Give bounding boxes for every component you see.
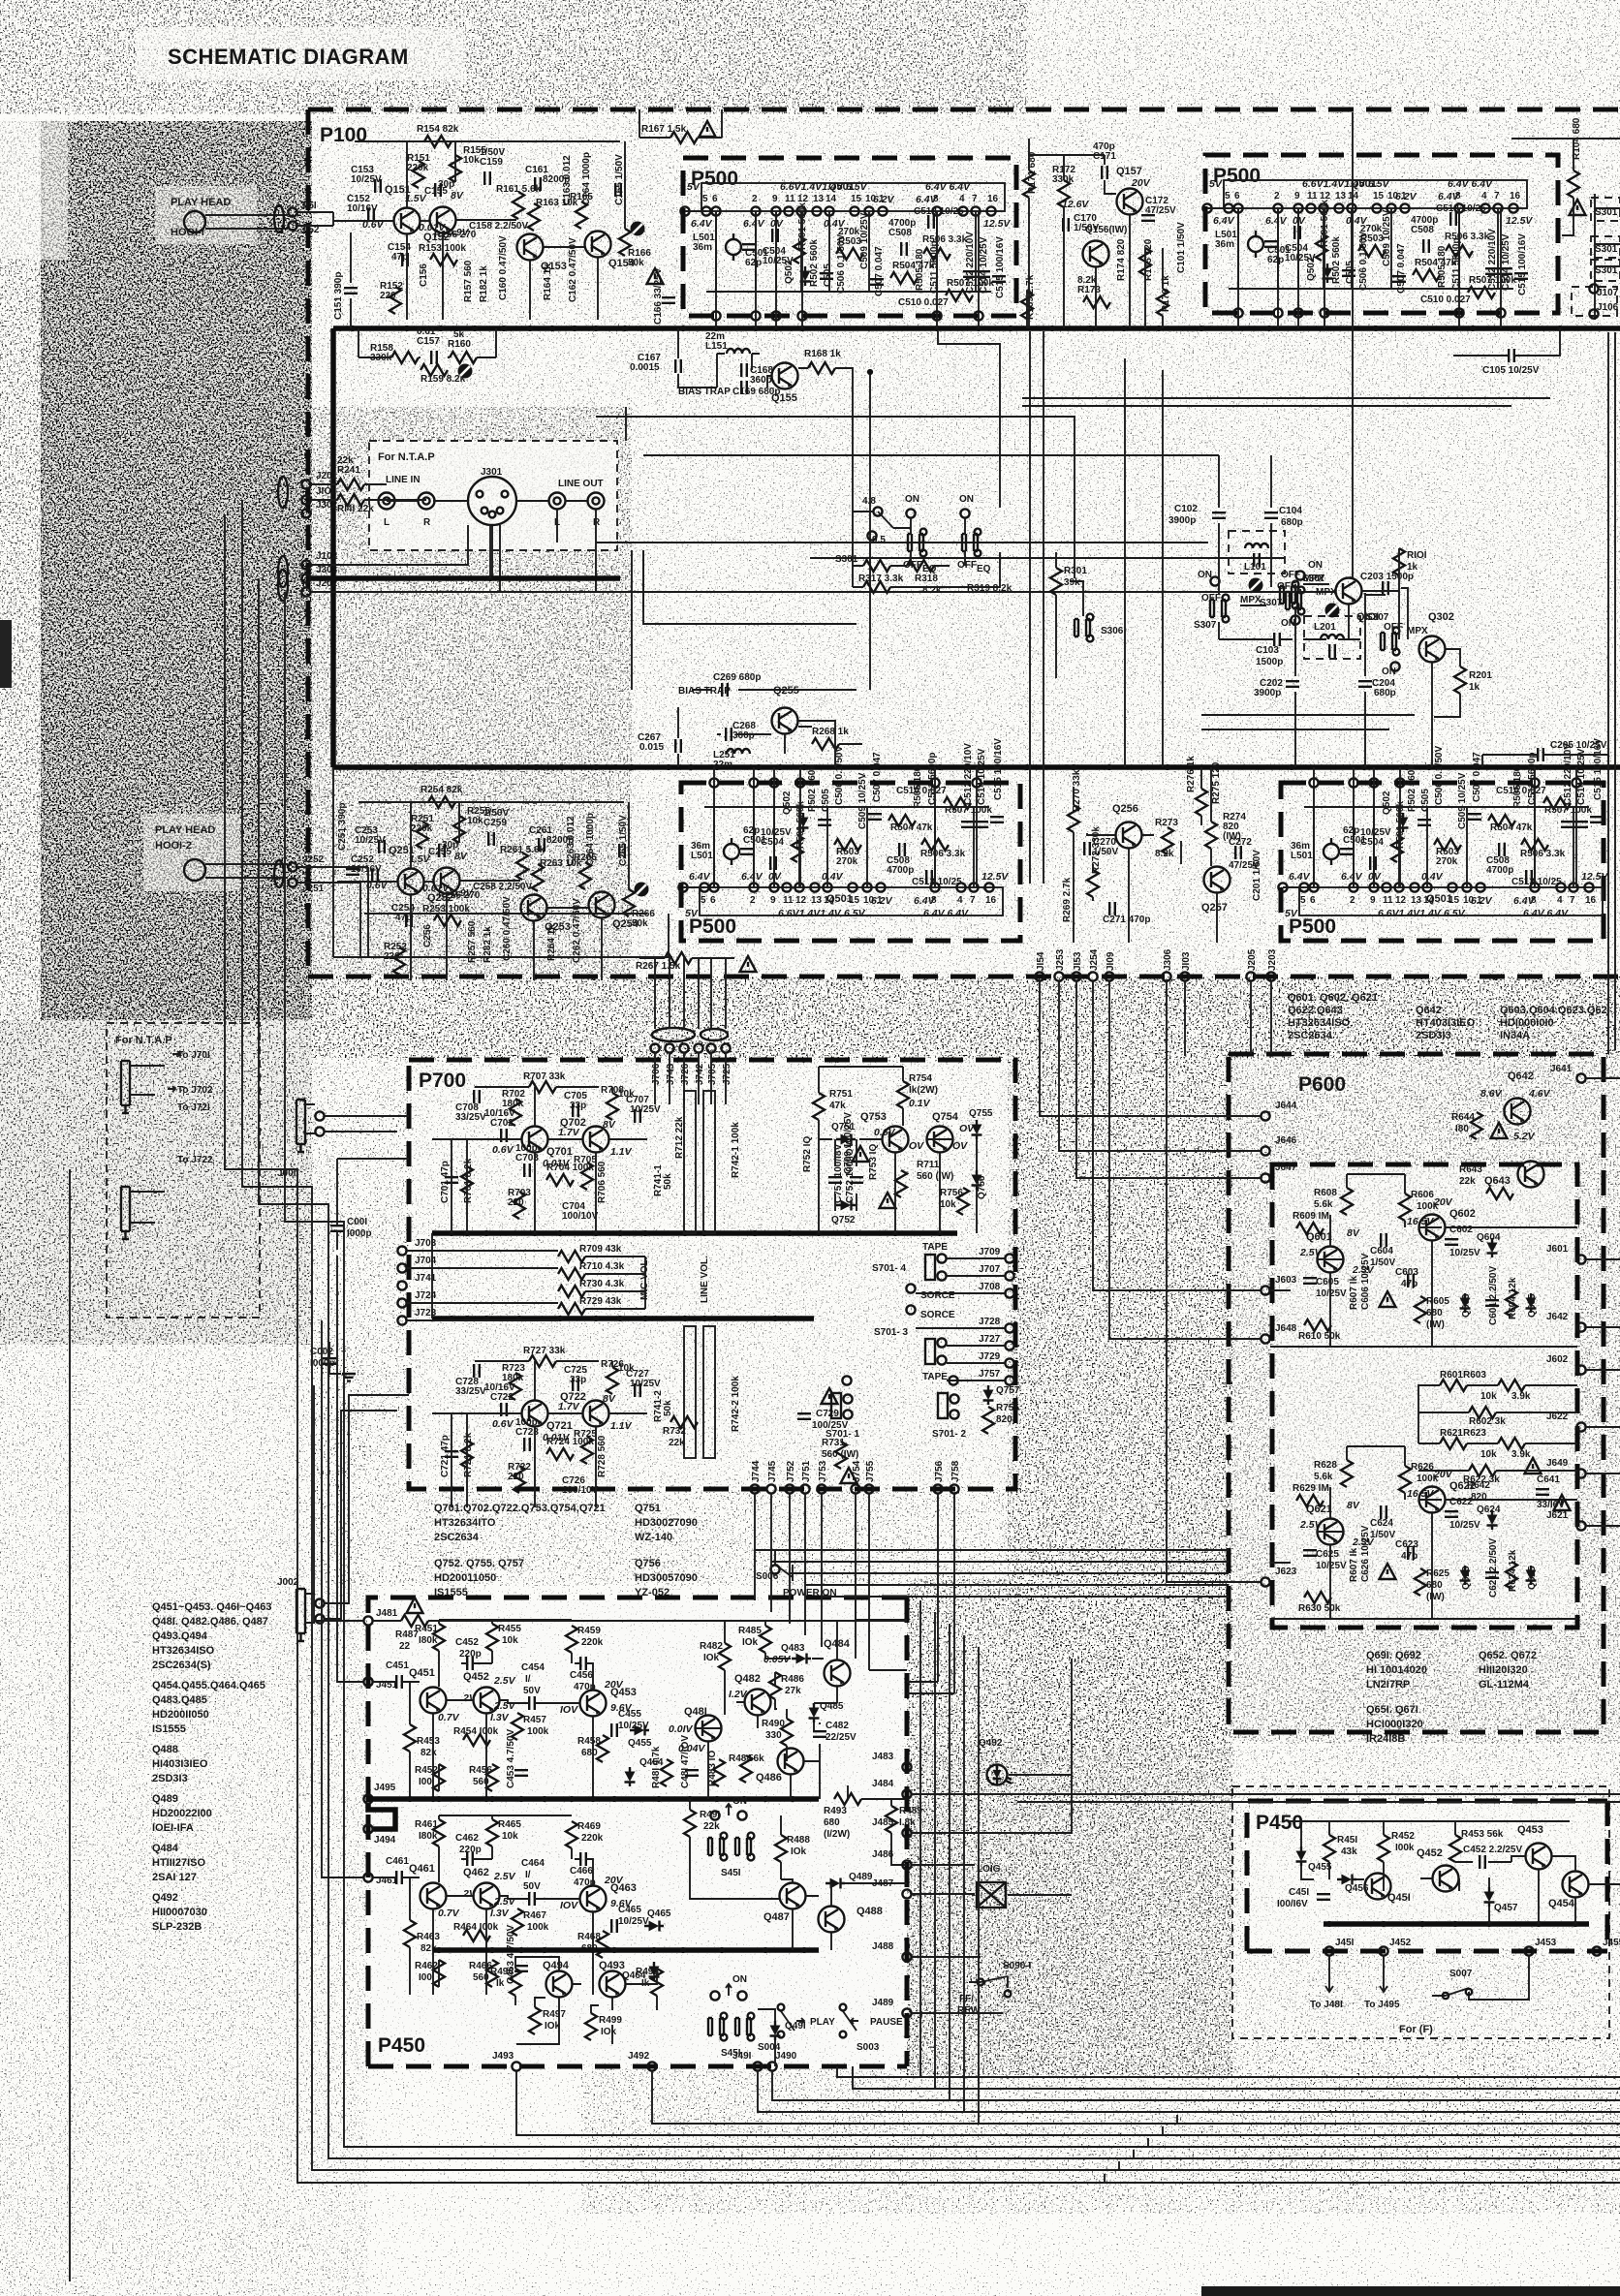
svg-text:5: 5 bbox=[1300, 895, 1306, 906]
transistor Q155 bbox=[772, 363, 798, 389]
svg-text:J708: J708 bbox=[979, 1282, 1001, 1292]
row wires bbox=[432, 1361, 647, 1507]
svg-text:10/16V: 10/16V bbox=[347, 203, 378, 214]
pin ON a bbox=[1210, 576, 1219, 585]
svg-text:8.2k: 8.2k bbox=[1155, 849, 1174, 859]
diode Q465 bbox=[644, 1921, 664, 1932]
svg-text:S306: S306 bbox=[1101, 626, 1124, 636]
svg-text:6.4V 6.4V: 6.4V 6.4V bbox=[1523, 908, 1569, 919]
wire bbox=[407, 1251, 645, 1320]
svg-text:I000p: I000p bbox=[347, 1228, 372, 1239]
svg-text:C505: C505 bbox=[1345, 261, 1355, 284]
resistor R506 3.3k P500-3 bbox=[921, 839, 949, 851]
svg-text:47p: 47p bbox=[1401, 1279, 1417, 1289]
transistor Q753 bbox=[883, 1127, 909, 1153]
resistor R167 1.5k bbox=[670, 132, 698, 143]
capacitor C270 1/50V bbox=[1084, 842, 1090, 855]
svg-text:10k: 10k bbox=[502, 1831, 518, 1842]
svg-text:LINE VOL.: LINE VOL. bbox=[700, 1256, 710, 1303]
switch S701-3 bbox=[874, 1327, 948, 1382]
svg-text:R164 1k: R164 1k bbox=[543, 264, 553, 300]
resistor R273 8.2k bbox=[1162, 827, 1173, 854]
svg-text:220k: 220k bbox=[407, 163, 429, 173]
svg-text:C482: C482 bbox=[826, 1721, 849, 1731]
capacitors C751 C752 bbox=[828, 1177, 842, 1183]
svg-text:HT32634ISO: HT32634ISO bbox=[152, 1645, 215, 1657]
svg-text:6.2V: 6.2V bbox=[873, 194, 895, 205]
svg-text:6.6V1.4V1.4V: 6.6V1.4V1.4V bbox=[778, 908, 842, 919]
transistor Q621 bbox=[1318, 1519, 1344, 1545]
svg-text:P100: P100 bbox=[320, 124, 367, 146]
svg-text:Q602: Q602 bbox=[1449, 1208, 1476, 1220]
transistor Q452 bbox=[474, 1688, 500, 1714]
svg-text:C157: C157 bbox=[417, 336, 440, 347]
wire right edge verticals bbox=[1608, 332, 1615, 1054]
resistor R507 100k P500-2 bbox=[1468, 287, 1495, 298]
svg-text:1k: 1k bbox=[1469, 682, 1480, 693]
resistor R485 10k bbox=[760, 1626, 771, 1653]
svg-text:1/50V: 1/50V bbox=[480, 147, 505, 158]
svg-text:J709: J709 bbox=[979, 1247, 1001, 1257]
svg-text:C511 5600p: C511 5600p bbox=[1451, 238, 1462, 292]
svg-text:13: 13 bbox=[1335, 191, 1347, 202]
resistor R625 680 bbox=[1415, 1568, 1426, 1596]
capacitor C455 10/25V bbox=[611, 1723, 617, 1737]
S301 select boxes bbox=[1591, 194, 1620, 320]
P450F outer dashed box bbox=[1232, 1786, 1609, 2038]
svg-text:5.6k: 5.6k bbox=[1314, 1472, 1333, 1482]
capacitor C167 0.0015 bbox=[675, 359, 681, 373]
resistor R451 180k bbox=[433, 1624, 445, 1651]
svg-text:R265: R265 bbox=[574, 853, 597, 863]
capacitor C452 2.2/25V bbox=[1480, 1855, 1485, 1869]
capacitor C621 2.2/50V bbox=[1485, 1572, 1499, 1578]
svg-text:6.5V: 6.5V bbox=[1368, 178, 1390, 190]
svg-text:R268 1k: R268 1k bbox=[812, 727, 849, 737]
svg-text:IOk: IOk bbox=[742, 1637, 759, 1648]
svg-text:10/25V: 10/25V bbox=[351, 174, 382, 185]
svg-text:C624: C624 bbox=[1370, 1518, 1393, 1529]
svg-text:R506 3.3k: R506 3.3k bbox=[1520, 849, 1566, 859]
svg-text:MPX: MPX bbox=[1407, 626, 1428, 636]
svg-text:IR24I8B: IR24I8B bbox=[1366, 1733, 1405, 1745]
svg-text:Q643: Q643 bbox=[1484, 1175, 1511, 1187]
cluster wires bbox=[337, 802, 629, 980]
capacitor C254 47p bbox=[406, 914, 412, 927]
svg-text:9: 9 bbox=[770, 895, 776, 906]
svg-text:22k: 22k bbox=[669, 1438, 685, 1448]
wire bbox=[358, 328, 496, 357]
svg-text:RIOI: RIOI bbox=[1407, 550, 1427, 561]
svg-text:Q483.Q485: Q483.Q485 bbox=[152, 1694, 207, 1706]
svg-text:30p: 30p bbox=[442, 840, 458, 851]
svg-text:R490: R490 bbox=[762, 1719, 785, 1729]
transistor group list text bbox=[1288, 992, 1607, 1041]
wires inside P500 P500-2 bbox=[1207, 208, 1513, 289]
capacitor C451F 100/16V bbox=[1317, 1894, 1330, 1900]
svg-text:5.6k: 5.6k bbox=[1314, 1199, 1333, 1210]
svg-text:50V: 50V bbox=[523, 1686, 541, 1696]
resistor R160 5k with trimmer bbox=[450, 352, 477, 363]
svg-text:(IW): (IW) bbox=[1426, 1592, 1445, 1602]
diode Q454 bbox=[625, 1767, 636, 1786]
svg-text:Q455: Q455 bbox=[628, 1738, 652, 1749]
resistor R701 8.2k bbox=[461, 1166, 473, 1194]
capacitor C601 2.2/50V bbox=[1485, 1300, 1499, 1306]
svg-text:J107: J107 bbox=[1597, 288, 1619, 298]
capacitor C165 1/50V bbox=[615, 183, 621, 197]
svg-text:C510 0.027: C510 0.027 bbox=[898, 297, 949, 308]
svg-text:J752: J752 bbox=[786, 1460, 796, 1482]
svg-text:C260 0.47/50V: C260 0.47/50V bbox=[502, 896, 513, 961]
switch S701-4 bbox=[872, 1242, 948, 1281]
svg-text:10/16V: 10/16V bbox=[484, 1108, 515, 1119]
resistor R605 680 bbox=[1415, 1296, 1426, 1323]
svg-text:Q502: Q502 bbox=[1382, 791, 1392, 815]
P600 right pins bbox=[1546, 1064, 1620, 1531]
svg-text:J641: J641 bbox=[1550, 1064, 1573, 1074]
wire feeder to J451 bbox=[337, 1256, 363, 1682]
svg-text:C512 220/10V: C512 220/10V bbox=[1487, 229, 1498, 291]
capacitor C161 8200p bbox=[535, 177, 541, 191]
capacitor C204 680p bbox=[1358, 681, 1372, 687]
svg-text:6.4V: 6.4V bbox=[1213, 215, 1235, 227]
svg-text:Q483: Q483 bbox=[781, 1643, 805, 1654]
capacitor C501 62p P500-4 bbox=[1340, 849, 1354, 854]
wire bbox=[690, 1785, 907, 1950]
svg-text:I00/I6V: I00/I6V bbox=[1277, 1899, 1308, 1909]
svg-text:R607 Ik: R607 Ik bbox=[1349, 1276, 1359, 1310]
capacitor C166 33/25V bbox=[662, 297, 675, 303]
resistor R503 270k P500-3 bbox=[834, 839, 861, 851]
transistor Q153 bbox=[517, 234, 544, 261]
svg-text:6.4V: 6.4V bbox=[741, 871, 763, 883]
svg-text:4700p: 4700p bbox=[887, 865, 914, 876]
svg-text:Q65I. Q67I: Q65I. Q67I bbox=[1366, 1704, 1418, 1716]
svg-text:Q157: Q157 bbox=[1116, 166, 1142, 177]
resistor R468 680 bbox=[597, 1931, 608, 1958]
border pins P500-3 bbox=[709, 778, 981, 887]
svg-text:Q487: Q487 bbox=[763, 1911, 790, 1923]
svg-text:For N.T.A.P: For N.T.A.P bbox=[115, 1035, 172, 1046]
resistor R705 470 bbox=[581, 1163, 593, 1190]
transistor Q722 bbox=[583, 1401, 609, 1427]
mixer resistors R730 R729 bbox=[558, 1286, 585, 1297]
svg-text:6.2V: 6.2V bbox=[1395, 191, 1417, 202]
svg-text:TAPE: TAPE bbox=[922, 1242, 948, 1253]
inductor L501 P500-4 bbox=[1324, 838, 1339, 865]
svg-text:R643: R643 bbox=[1459, 1164, 1482, 1175]
svg-text:C201 1/50V: C201 1/50V bbox=[1252, 850, 1262, 901]
resistor R270 33k bbox=[1068, 805, 1079, 832]
svg-text:R753 IQ: R753 IQ bbox=[868, 1144, 879, 1180]
svg-text:C454: C454 bbox=[521, 1662, 545, 1673]
wire mid connects bbox=[912, 1744, 1620, 2013]
svg-text:Q623: Q623 bbox=[1461, 1566, 1472, 1590]
svg-text:R505 180: R505 180 bbox=[1437, 245, 1448, 288]
P500 module box P500-3 bbox=[681, 783, 1020, 941]
svg-text:C452 2.2/25V: C452 2.2/25V bbox=[1463, 1845, 1522, 1855]
svg-text:L101: L101 bbox=[1244, 562, 1266, 573]
svg-text:C505: C505 bbox=[1420, 789, 1431, 812]
svg-text:L151: L151 bbox=[705, 341, 728, 352]
svg-text:47/25V: 47/25V bbox=[1145, 205, 1176, 216]
capacitor C252 10/16V bbox=[372, 869, 378, 883]
svg-text:R457: R457 bbox=[523, 1715, 546, 1725]
svg-text:62p: 62p bbox=[745, 258, 762, 268]
resistor R452 100k bbox=[1378, 1835, 1389, 1862]
svg-text:C515 100/16V: C515 100/16V bbox=[995, 236, 1006, 298]
svg-text:7: 7 bbox=[970, 895, 976, 906]
svg-text:C453 4.7/50V: C453 4.7/50V bbox=[506, 1729, 516, 1788]
transistor Q487 bbox=[780, 1883, 806, 1909]
svg-text:62p: 62p bbox=[1267, 255, 1284, 265]
svg-text:For N.T.A.P: For N.T.A.P bbox=[378, 451, 435, 463]
resistor R176 1k bbox=[1157, 289, 1168, 316]
IC Q501 pins P500-1 bbox=[680, 194, 998, 216]
svg-text:47k: 47k bbox=[829, 1101, 846, 1111]
capacitor C253 10/25V bbox=[379, 840, 385, 853]
svg-text:10/25V: 10/25V bbox=[355, 835, 386, 846]
svg-text:12: 12 bbox=[1395, 895, 1407, 906]
capacitor C104 680p bbox=[1264, 512, 1278, 518]
resistor R104 680 bbox=[1568, 171, 1579, 198]
resistor R265 5.6k bbox=[579, 862, 591, 889]
resistor R276 1k bbox=[1196, 789, 1207, 816]
svg-text:PLAY HEAD: PLAY HEAD bbox=[155, 824, 215, 836]
svg-text:2V: 2V bbox=[462, 1888, 477, 1900]
resistor R498 1k bbox=[651, 1969, 663, 1996]
svg-text:4.8: 4.8 bbox=[862, 496, 876, 507]
svg-text:R463: R463 bbox=[417, 1932, 440, 1942]
svg-text:R: R bbox=[593, 517, 601, 528]
P600 left pins bbox=[1261, 1101, 1296, 1587]
svg-text:47p: 47p bbox=[391, 252, 408, 263]
svg-text:P600: P600 bbox=[1298, 1073, 1346, 1096]
svg-text:Q754: Q754 bbox=[932, 1111, 959, 1123]
wire trunk left 4 bbox=[285, 592, 1620, 2147]
svg-text:2.5V: 2.5V bbox=[1299, 1247, 1323, 1258]
svg-text:R628: R628 bbox=[1314, 1460, 1337, 1471]
wire feeder to J481 bbox=[314, 1385, 363, 1621]
svg-text:4700p: 4700p bbox=[888, 218, 916, 229]
wire bbox=[696, 1621, 837, 1799]
wire trunk left 3 bbox=[259, 578, 1620, 2158]
wire bbox=[1027, 139, 1163, 328]
svg-text:9.6V: 9.6V bbox=[610, 1898, 633, 1909]
svg-text:I.8k: I.8k bbox=[899, 1817, 916, 1828]
capacitor C157 0.01 bbox=[431, 351, 437, 364]
capacitor C725 33p bbox=[573, 1378, 578, 1391]
svg-text:R742-2 100k: R742-2 100k bbox=[731, 1376, 741, 1432]
svg-text:C159: C159 bbox=[480, 157, 503, 168]
svg-text:C45I: C45I bbox=[1289, 1887, 1309, 1898]
svg-text:Q642: Q642 bbox=[1508, 1070, 1534, 1082]
transistor Q488 bbox=[819, 1907, 845, 1933]
svg-text:4: 4 bbox=[1557, 895, 1563, 906]
svg-text:HOOI-I: HOOI-I bbox=[171, 227, 204, 238]
svg-text:S701- 2: S701- 2 bbox=[932, 1429, 966, 1440]
resistor R493 680 bbox=[834, 1793, 861, 1805]
svg-text:C721 47p: C721 47p bbox=[440, 1435, 451, 1477]
svg-text:16.5V: 16.5V bbox=[1407, 1488, 1434, 1500]
jack J002 bbox=[296, 1589, 305, 1641]
resistor R628 5.6k bbox=[1341, 1460, 1353, 1487]
transistor Q702 bbox=[583, 1127, 609, 1153]
capacitor C723 100p bbox=[524, 1438, 530, 1451]
svg-text:C103: C103 bbox=[1256, 645, 1279, 656]
svg-text:HDI000I0I0: HDI000I0I0 bbox=[1500, 1017, 1554, 1029]
svg-text:R254 82k: R254 82k bbox=[421, 785, 463, 795]
border pins P500-4 bbox=[1309, 778, 1580, 887]
switch S307 b bbox=[1286, 587, 1304, 615]
svg-text:C604: C604 bbox=[1370, 1246, 1393, 1257]
transistor Q256 bbox=[1116, 822, 1142, 849]
svg-text:8V: 8V bbox=[454, 851, 468, 862]
diode Q623 bbox=[1460, 1566, 1471, 1585]
capacitor C202 3900p bbox=[1286, 681, 1299, 687]
svg-text:OV: OV bbox=[959, 1123, 975, 1134]
svg-text:R261 5.6k: R261 5.6k bbox=[500, 845, 545, 855]
capacitor C105 10/25V bbox=[1509, 349, 1514, 362]
svg-text:J453: J453 bbox=[1535, 1938, 1557, 1948]
resistor R501 560k P500-4 bbox=[1391, 835, 1403, 862]
svg-text:R455: R455 bbox=[498, 1624, 521, 1634]
svg-text:To J70I: To J70I bbox=[177, 1050, 210, 1061]
svg-text:C456: C456 bbox=[570, 1670, 593, 1681]
svg-text:P450: P450 bbox=[378, 2034, 425, 2057]
capacitor C513 P500-4 bbox=[1526, 870, 1532, 884]
svg-text:Ik(2W): Ik(2W) bbox=[909, 1085, 938, 1096]
svg-text:50k: 50k bbox=[663, 1173, 673, 1190]
svg-text:R469: R469 bbox=[577, 1821, 601, 1832]
capacitor C504 P500-3 bbox=[770, 856, 776, 870]
diode Q502 P500-1 bbox=[800, 266, 811, 286]
cluster wires bbox=[333, 141, 625, 320]
pin J461 bbox=[363, 1873, 372, 1881]
resistor R604 12k bbox=[1506, 1289, 1517, 1317]
resistor R644 180 bbox=[1471, 1112, 1482, 1139]
resistor R610 50k bbox=[1304, 1319, 1331, 1331]
resistor R165 5.6k bbox=[576, 202, 587, 229]
svg-text:Q48I: Q48I bbox=[684, 1706, 707, 1718]
svg-text:Q451~Q453. Q46I~Q463: Q451~Q453. Q46I~Q463 bbox=[152, 1601, 272, 1613]
svg-text:Q45I: Q45I bbox=[1387, 1892, 1411, 1904]
svg-text:C151 390p: C151 390p bbox=[333, 272, 344, 320]
svg-text:J729: J729 bbox=[979, 1351, 1001, 1362]
transistor Q721 bbox=[522, 1401, 548, 1427]
capacitor C261 8200p bbox=[539, 838, 545, 852]
diode Q751 bbox=[836, 1134, 856, 1145]
wires inside P500 P500-1 bbox=[685, 211, 991, 292]
svg-text:43k: 43k bbox=[1341, 1846, 1357, 1857]
svg-text:ON: ON bbox=[1198, 570, 1212, 580]
svg-text:LINE IN: LINE IN bbox=[386, 475, 421, 485]
svg-text:C511 5600p: C511 5600p bbox=[929, 241, 940, 295]
resistor R483 10 bbox=[713, 1759, 725, 1786]
P450F inner boundary bbox=[1247, 1801, 1607, 1951]
svg-text:9.6V: 9.6V bbox=[610, 1702, 633, 1714]
resistor R461 180k bbox=[433, 1819, 445, 1846]
svg-text:C272: C272 bbox=[1229, 837, 1252, 848]
capacitor C623 47p bbox=[1408, 1546, 1414, 1560]
svg-text:MPX: MPX bbox=[1240, 595, 1262, 605]
resistor R141 22k bbox=[337, 494, 364, 506]
svg-text:S301: S301 bbox=[835, 554, 858, 565]
svg-text:R624 12k: R624 12k bbox=[1508, 1549, 1518, 1592]
wire from J493 bbox=[516, 2071, 1620, 2135]
svg-text:C160 0.47/50V: C160 0.47/50V bbox=[498, 235, 509, 300]
transistor Q484 bbox=[825, 1660, 851, 1687]
capacitor C504 P500-4 bbox=[1370, 856, 1376, 870]
svg-text:C623: C623 bbox=[1395, 1539, 1418, 1550]
svg-text:Q624: Q624 bbox=[1477, 1505, 1501, 1515]
svg-text:P700: P700 bbox=[419, 1070, 466, 1092]
svg-text:C514 10/25V: C514 10/25V bbox=[977, 748, 987, 805]
svg-text:220p: 220p bbox=[459, 1649, 482, 1660]
capacitor C505 P500-2 bbox=[1342, 270, 1355, 276]
svg-text:R604 12k: R604 12k bbox=[1508, 1277, 1518, 1319]
svg-text:270k: 270k bbox=[1436, 856, 1458, 867]
resistor R629 1M bbox=[1296, 1495, 1324, 1506]
svg-text:C506 0.1/50V: C506 0.1/50V bbox=[836, 234, 847, 294]
svg-text:11: 11 bbox=[1307, 191, 1318, 202]
wire bundle P100 to P600 bbox=[1040, 981, 1261, 1116]
svg-text:8.2k: 8.2k bbox=[1077, 275, 1097, 286]
svg-text:6.4V: 6.4V bbox=[1289, 871, 1311, 883]
scan edge artifact left bbox=[0, 620, 12, 688]
resistor R175 120 bbox=[1139, 248, 1151, 275]
svg-text:R182 1k: R182 1k bbox=[479, 265, 489, 302]
wire feeder to J461 bbox=[322, 1320, 363, 1877]
IC Q501 body P500-3 bbox=[700, 887, 1003, 915]
main supply bus upper bbox=[333, 326, 1620, 331]
svg-text:Q155: Q155 bbox=[771, 392, 797, 404]
svg-text:C265 1/50V: C265 1/50V bbox=[618, 815, 629, 866]
svg-text:C203 1500p: C203 1500p bbox=[1360, 572, 1414, 582]
svg-text:J483: J483 bbox=[872, 1752, 894, 1762]
transistor Q642 bbox=[1505, 1099, 1531, 1125]
wire baseline lower cluster bbox=[360, 914, 672, 957]
resistor R484 56k bbox=[740, 1755, 752, 1783]
svg-text:20V: 20V bbox=[1131, 177, 1151, 189]
svg-text:5V: 5V bbox=[687, 181, 701, 193]
resistor R504 47k P500-2 bbox=[1413, 269, 1440, 281]
svg-text:QIOI: QIOI bbox=[1356, 611, 1379, 623]
svg-text:J726: J726 bbox=[680, 1063, 691, 1085]
resistor R452 100 bbox=[433, 1764, 445, 1791]
resistor R482 10k bbox=[719, 1643, 731, 1670]
P700 right J pins bbox=[916, 1247, 1014, 1385]
row wires bbox=[373, 1620, 593, 1799]
svg-text:7: 7 bbox=[972, 194, 978, 204]
svg-text:C462: C462 bbox=[455, 1833, 479, 1844]
svg-text:R168 1k: R168 1k bbox=[804, 349, 841, 359]
svg-text:82k: 82k bbox=[421, 1748, 437, 1758]
svg-text:J306: J306 bbox=[1163, 948, 1173, 971]
svg-text:Q755: Q755 bbox=[969, 1108, 993, 1119]
svg-text:I/: I/ bbox=[525, 1870, 531, 1880]
svg-text:22/25V: 22/25V bbox=[826, 1732, 857, 1743]
transistor Q701 bbox=[522, 1127, 548, 1153]
svg-text:J756: J756 bbox=[934, 1460, 945, 1482]
svg-text:22k: 22k bbox=[703, 1821, 720, 1832]
resistor R503 270k P500-2 bbox=[1358, 245, 1386, 257]
svg-text:22k: 22k bbox=[1459, 1176, 1476, 1187]
svg-text:C605: C605 bbox=[1316, 1277, 1339, 1288]
resistor R491 22k bbox=[684, 1810, 696, 1837]
svg-text:9: 9 bbox=[772, 194, 778, 204]
